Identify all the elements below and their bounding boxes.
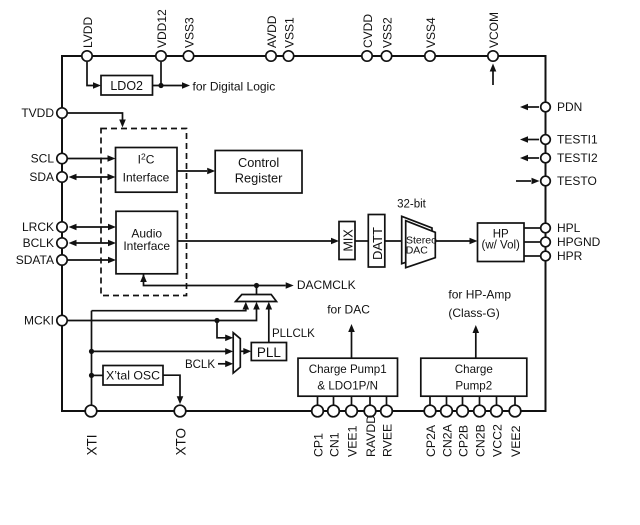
junction dot DACMCLK/mux output xyxy=(254,283,259,288)
svg-text:VCC2: VCC2 xyxy=(490,424,504,457)
svg-text:VSS1: VSS1 xyxy=(282,17,296,48)
svg-text:XTI: XTI xyxy=(84,434,99,455)
pin MCKI xyxy=(24,314,67,328)
wire RVEE stub xyxy=(386,396,388,405)
pin VSS4 xyxy=(424,17,438,61)
pin CN2A xyxy=(440,405,454,457)
wire TESTO arrow xyxy=(516,178,540,185)
HP amp U-HP xyxy=(478,223,525,262)
svg-text:HPL: HPL xyxy=(557,221,581,235)
wire CP1 stub xyxy=(317,396,319,405)
svg-text:X’tal OSC: X’tal OSC xyxy=(106,369,160,383)
svg-text:LRCK: LRCK xyxy=(22,220,54,234)
svg-text:PLL: PLL xyxy=(257,345,282,360)
I2C Interface U-I2C xyxy=(116,148,178,193)
svg-text:for DAC: for DAC xyxy=(327,303,370,317)
wire I2C to Control Register xyxy=(177,168,215,175)
svg-text:VEE2: VEE2 xyxy=(509,425,523,457)
wire TESTI2 arrow xyxy=(520,155,539,162)
svg-text:DAC: DAC xyxy=(406,245,429,257)
pin HPGND xyxy=(541,235,601,249)
pin CP2B xyxy=(456,405,470,457)
pin AVDD xyxy=(265,15,279,61)
wire CP2B stub xyxy=(462,396,464,405)
svg-text:BCLK: BCLK xyxy=(23,236,54,250)
wire LVDD to LDO2 xyxy=(87,62,101,89)
pin VDD12 xyxy=(155,9,169,61)
svg-text:HPR: HPR xyxy=(557,249,583,263)
Charge Pump2 xyxy=(421,358,527,396)
junction dot VDD12/LDO2 xyxy=(158,83,163,88)
svg-text:I2C: I2C xyxy=(138,152,155,167)
wire VEE2 stub xyxy=(514,396,516,405)
svg-text:SCL: SCL xyxy=(31,152,55,166)
wire HP to HPR xyxy=(524,255,540,257)
pin HPR xyxy=(541,249,583,263)
pin TESTO xyxy=(541,174,597,188)
wire SCL to I2C xyxy=(68,155,116,162)
mux DACMCLK select xyxy=(236,295,277,302)
svg-text:for HP-Amp: for HP-Amp xyxy=(448,288,511,302)
pin CP1 xyxy=(311,405,325,457)
svg-text:TESTI1: TESTI1 xyxy=(557,133,598,147)
mux PLL reference select xyxy=(233,333,240,373)
wire BCLK to PLL mux input 3 xyxy=(218,361,233,368)
svg-text:LVDD: LVDD xyxy=(81,17,95,48)
svg-text:CP2B: CP2B xyxy=(456,425,470,457)
wire SDATA to Audio Interface xyxy=(68,257,116,264)
wire DACMCLK net xyxy=(140,274,355,292)
svg-text:CN2B: CN2B xyxy=(473,424,487,457)
PLL U-PLL xyxy=(251,343,286,361)
label for HP-Amp (Class-G) xyxy=(448,288,511,321)
wire VCOM input arrow xyxy=(490,64,497,86)
svg-text:AVDD: AVDD xyxy=(265,15,279,48)
wire CP2A stub xyxy=(429,396,431,405)
wire SDA to I2C (bidirectional) xyxy=(69,174,116,181)
wire LRCK to Audio Interface (bidirectional) xyxy=(69,224,117,231)
svg-text:MCKI: MCKI xyxy=(24,314,54,328)
svg-text:CN1: CN1 xyxy=(327,432,341,457)
svg-text:Interface: Interface xyxy=(123,239,170,253)
wire Audio Interface to MIX xyxy=(178,238,340,245)
svg-text:LDO2: LDO2 xyxy=(110,79,143,93)
pin XTI xyxy=(84,405,99,455)
wire XTI to Xtal OSC xyxy=(92,374,104,376)
wire mux output stub xyxy=(256,286,258,295)
svg-text:Charge: Charge xyxy=(455,363,493,376)
svg-text:(w/ Vol): (w/ Vol) xyxy=(482,240,521,252)
svg-text:Charge Pump1: Charge Pump1 xyxy=(309,363,387,376)
pin LVDD xyxy=(81,17,95,62)
wire MIX to DATT xyxy=(355,240,368,242)
pin SDATA xyxy=(16,253,67,267)
pin RVEE xyxy=(380,405,394,457)
wire XTI branch to mux input 1 xyxy=(92,302,250,311)
wire TVDD to control block xyxy=(68,113,126,128)
wire RAVDD stub xyxy=(369,396,371,405)
pin XTO xyxy=(173,405,188,455)
junction dot XTI/XtalOSC xyxy=(89,373,94,378)
svg-text:TESTI2: TESTI2 xyxy=(557,151,598,165)
wire DATT to DAC xyxy=(385,240,406,242)
pin TESTI2 xyxy=(541,151,598,165)
wire CN2B stub xyxy=(479,396,481,405)
svg-text:& LDO1P/N: & LDO1P/N xyxy=(317,379,378,392)
dashed control block boundary xyxy=(101,129,187,296)
wire HP to HPGND xyxy=(524,241,540,243)
pin BCLK xyxy=(23,236,68,250)
pin VCOM xyxy=(487,12,501,61)
Stereo DAC xyxy=(402,216,437,267)
svg-text:XTO: XTO xyxy=(173,428,188,456)
regulator LDO2 xyxy=(101,76,153,96)
pin SDA xyxy=(29,170,67,184)
wire MCKI to mux input 2 xyxy=(68,302,260,321)
wire BCLK to Audio Interface (bidirectional) xyxy=(69,240,117,247)
svg-text:Pump2: Pump2 xyxy=(455,379,492,392)
wire CN2A stub xyxy=(446,396,448,405)
svg-text:SDA: SDA xyxy=(29,170,54,184)
svg-text:HPGND: HPGND xyxy=(557,235,601,249)
svg-text:Interface: Interface xyxy=(123,171,170,185)
svg-text:RAVDD: RAVDD xyxy=(364,415,378,457)
Charge Pump1 and LDO1 xyxy=(298,358,398,396)
wire junction to for Digital Logic xyxy=(161,80,275,94)
pin LRCK xyxy=(22,220,67,234)
wire PLLCLK to mux input 3 xyxy=(266,302,316,343)
svg-text:VDD12: VDD12 xyxy=(155,9,169,48)
oscillator Xtal OSC xyxy=(103,366,163,386)
Control Register xyxy=(215,151,302,194)
pin CN2B xyxy=(473,405,487,457)
pin CP2A xyxy=(424,405,438,457)
wire XTI vertical net xyxy=(91,311,93,405)
svg-text:DATT: DATT xyxy=(370,227,385,260)
wire mux to PLL xyxy=(240,348,251,355)
wire VCC2 stub xyxy=(496,396,498,405)
wire Xtal OSC to XTO xyxy=(163,375,183,404)
svg-text:CVDD: CVDD xyxy=(361,14,375,48)
svg-text:(Class-G): (Class-G) xyxy=(448,306,499,320)
pin PDN xyxy=(541,100,583,114)
svg-text:CN2A: CN2A xyxy=(440,423,454,457)
chip outline xyxy=(62,56,546,411)
pin TESTI1 xyxy=(541,133,598,147)
svg-text:DACMCLK: DACMCLK xyxy=(297,278,356,292)
pin VEE1 xyxy=(345,405,359,457)
pin RAVDD xyxy=(364,405,378,457)
svg-text:VEE1: VEE1 xyxy=(345,425,359,457)
junction dot XTI/PLL-mux branch xyxy=(89,349,94,354)
svg-text:VSS3: VSS3 xyxy=(182,17,196,48)
svg-text:MIX: MIX xyxy=(341,229,355,252)
wire HP to HPL xyxy=(524,227,540,229)
svg-text:Register: Register xyxy=(235,171,283,186)
svg-text:PLLCLK: PLLCLK xyxy=(272,328,315,340)
pin HPL xyxy=(541,221,581,235)
svg-text:SDATA: SDATA xyxy=(16,253,54,267)
pin TVDD xyxy=(21,106,67,120)
attenuator DATT xyxy=(368,215,385,268)
pin SCL xyxy=(31,152,68,166)
pin VEE2 xyxy=(509,405,523,457)
wire Charge Pump1 to for DAC arrow xyxy=(348,324,355,358)
pin VSS3 xyxy=(182,17,196,61)
pin CVDD xyxy=(361,14,375,62)
svg-text:VSS4: VSS4 xyxy=(424,17,438,48)
wire XTI branch to PLL mux input 2 xyxy=(92,348,234,355)
pin CN1 xyxy=(327,405,341,457)
pin VCC2 xyxy=(490,405,504,457)
wire DAC to HP amp xyxy=(435,238,477,245)
svg-text:CP1: CP1 xyxy=(311,433,325,457)
wire MCKI branch to PLL mux input 1 xyxy=(217,321,233,342)
wire LDO2 output to VDD12 junction xyxy=(153,62,162,86)
svg-text:TESTO: TESTO xyxy=(557,174,597,188)
svg-text:VCOM: VCOM xyxy=(487,12,501,48)
mixer MIX xyxy=(339,222,355,260)
svg-text:CP2A: CP2A xyxy=(424,424,438,457)
junction dot MCKI/PLL-mux branch xyxy=(214,318,219,323)
svg-text:32-bit: 32-bit xyxy=(397,199,427,211)
svg-text:Control: Control xyxy=(238,155,279,170)
pin VSS1 xyxy=(282,17,296,61)
svg-text:RVEE: RVEE xyxy=(380,424,394,457)
Audio Interface xyxy=(116,211,178,273)
wire Charge Pump2 to for HP-Amp arrow xyxy=(473,325,480,358)
svg-text:PDN: PDN xyxy=(557,100,582,114)
svg-text:BCLK: BCLK xyxy=(185,359,215,371)
wire VEE1 stub xyxy=(351,396,353,405)
wire TESTI1 arrow xyxy=(520,136,539,143)
wire PDN arrow xyxy=(520,104,539,111)
svg-text:TVDD: TVDD xyxy=(21,106,54,120)
svg-text:VSS2: VSS2 xyxy=(380,17,394,48)
wire CN1 stub xyxy=(333,396,335,405)
svg-text:for Digital Logic: for Digital Logic xyxy=(193,80,276,94)
pin VSS2 xyxy=(380,17,394,61)
